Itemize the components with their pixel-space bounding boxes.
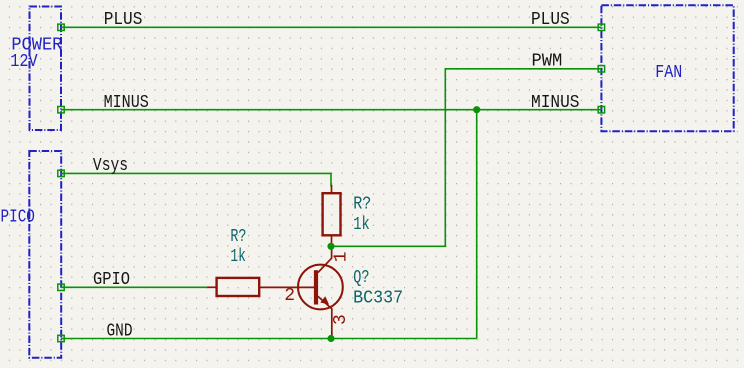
svg-text:MINUS: MINUS [104, 93, 149, 113]
svg-text:R?: R? [230, 227, 246, 247]
svg-text:GND: GND [107, 321, 133, 341]
svg-text:12V: 12V [10, 52, 37, 72]
svg-text:FAN: FAN [655, 63, 682, 83]
svg-text:1: 1 [331, 251, 351, 262]
svg-text:Q?: Q? [353, 268, 369, 288]
svg-text:1k: 1k [353, 215, 370, 235]
svg-text:3: 3 [331, 314, 351, 325]
svg-text:2: 2 [284, 286, 295, 306]
svg-text:R?: R? [353, 194, 371, 214]
svg-text:PLUS: PLUS [531, 10, 570, 30]
svg-text:GPIO: GPIO [93, 270, 130, 290]
svg-text:MINUS: MINUS [531, 93, 580, 113]
svg-text:Vsys: Vsys [93, 156, 128, 176]
svg-text:PLUS: PLUS [104, 10, 143, 30]
svg-text:PICO: PICO [1, 208, 35, 228]
svg-text:1k: 1k [230, 247, 246, 267]
svg-text:PWM: PWM [532, 52, 563, 72]
svg-text:BC337: BC337 [353, 288, 403, 308]
